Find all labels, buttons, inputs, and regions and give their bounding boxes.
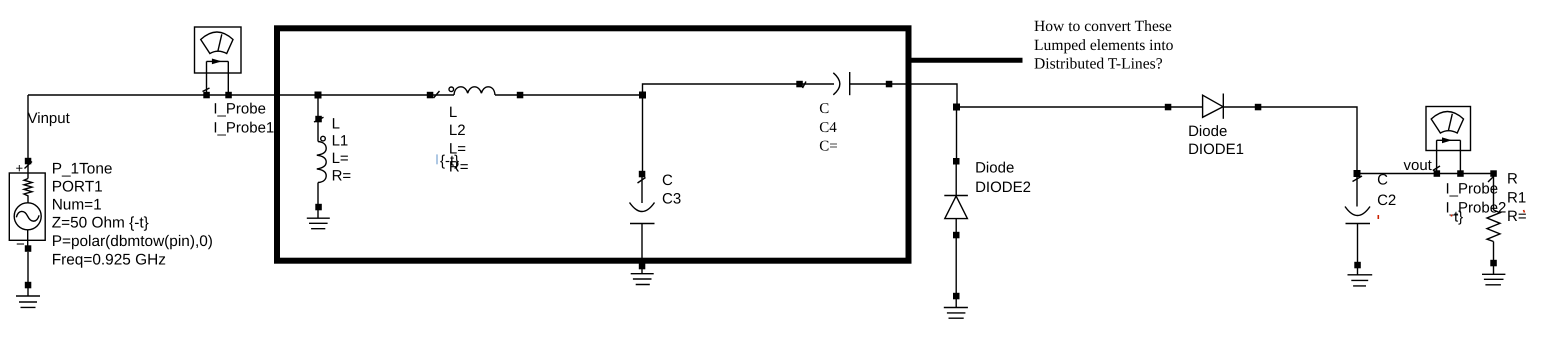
slash tick at L1 pin 1 xyxy=(314,117,324,122)
wire down to plates xyxy=(1356,177,1358,207)
label L2 xyxy=(449,104,469,175)
wire pin to cathode bar xyxy=(955,164,957,196)
ground pin square xyxy=(25,282,32,289)
svg-text:t}: t} xyxy=(1454,208,1463,225)
capacitor C2 (shunt) xyxy=(1345,176,1372,286)
straight plate of C4 xyxy=(849,72,851,95)
svg-text:Lumped elements into: Lumped elements into xyxy=(1034,37,1174,54)
node junction pin on main wire xyxy=(639,92,646,99)
text t} fragment xyxy=(1454,208,1463,225)
svg-text:Num=1: Num=1 xyxy=(52,197,102,214)
svg-text:I_Probe: I_Probe xyxy=(213,101,266,118)
wire pin to zigzag xyxy=(1493,177,1495,210)
svg-text:C2: C2 xyxy=(1377,192,1396,209)
svg-text:C: C xyxy=(819,101,829,117)
pin 1 of C4 xyxy=(796,81,803,88)
wire riser to C4 branch xyxy=(643,84,835,95)
pin 1 (top) of PORT1 xyxy=(25,158,32,165)
svg-text:P_1Tone: P_1Tone xyxy=(52,161,113,178)
node Vinput xyxy=(28,110,71,127)
svg-text:L: L xyxy=(449,104,457,121)
resistor R1 (shunt) xyxy=(1482,170,1505,284)
label DIODE1 xyxy=(1188,123,1244,158)
svg-text:L1: L1 xyxy=(332,132,349,149)
wire down to C3 xyxy=(642,95,644,171)
plus sign xyxy=(16,161,24,176)
pin 1 of L1 xyxy=(315,116,322,123)
slash tick on left leg xyxy=(1433,166,1440,171)
pin 2 of L1 xyxy=(315,204,322,211)
svg-text:DIODE2: DIODE2 xyxy=(975,179,1031,196)
wire into resistor xyxy=(27,161,29,179)
svg-text:L: L xyxy=(332,116,340,133)
label vout xyxy=(1404,157,1433,174)
pin 2 of DIODE2 xyxy=(953,232,960,239)
svg-text:PORT1: PORT1 xyxy=(52,178,103,195)
node junction pin xyxy=(953,104,960,111)
svg-text:R=: R= xyxy=(332,167,352,184)
label I_Probe1 xyxy=(213,101,274,137)
wire exit of box, corner down xyxy=(889,84,957,107)
pin 2 of DIODE1 xyxy=(1255,104,1262,111)
text {-t} overlay near L2 xyxy=(440,152,459,169)
svg-text:I_Probe: I_Probe xyxy=(1446,181,1499,198)
red tick near C2 xyxy=(1377,215,1379,219)
wire zigzag to pin 2 xyxy=(1493,242,1495,264)
wire vout net xyxy=(1357,173,1494,175)
wire circle to bottom pin xyxy=(27,230,29,249)
arrowhead xyxy=(1442,137,1452,143)
slash tick at R1 pin 1 xyxy=(1488,176,1495,183)
curved plate of C2 xyxy=(1345,207,1370,216)
svg-text:C3: C3 xyxy=(662,190,681,207)
node junction pin at main wire xyxy=(315,92,322,99)
diode DIODE1 (series) xyxy=(1165,94,1262,119)
slash tick at C4 pin 1 xyxy=(803,82,807,89)
cathode bar of DIODE1 xyxy=(1222,94,1224,119)
label I_Probe2 xyxy=(1446,181,1507,217)
svg-text:I_Probe1: I_Probe1 xyxy=(213,120,274,137)
polarity dot circle of L1 xyxy=(321,136,326,141)
big annotation box (thick rectangle) xyxy=(277,28,909,260)
annotation text (serif) xyxy=(1034,18,1174,73)
slash tick on left leg xyxy=(203,88,210,92)
pin 1 of I_Probe1 xyxy=(203,92,210,99)
svg-text:C=: C= xyxy=(819,139,837,155)
body box of PORT1 xyxy=(9,173,45,240)
svg-text:Distributed T-Lines?: Distributed T-Lines? xyxy=(1034,56,1163,73)
pin 1 of DIODE1 xyxy=(1165,104,1172,111)
pin 2 (bottom) of PORT1 xyxy=(25,245,32,252)
pin 2 of L2 xyxy=(517,92,524,99)
pin 1 of L2 xyxy=(427,92,434,99)
wire plate to ground pin xyxy=(641,224,643,264)
meter fan outer arc xyxy=(1431,112,1463,134)
svg-text:R1: R1 xyxy=(1507,189,1526,206)
inductor L2 (series) xyxy=(427,87,524,99)
svg-text:Vinput: Vinput xyxy=(28,110,71,127)
straight plate of C3 xyxy=(630,223,655,225)
cathode bar of DIODE2 xyxy=(944,195,968,197)
triangle of DIODE2 xyxy=(945,196,968,219)
zigzag of R1 xyxy=(1487,210,1500,242)
svg-text:{-t}: {-t} xyxy=(440,152,459,169)
arrow line xyxy=(207,60,229,62)
label C4 (serif) xyxy=(819,101,837,155)
svg-text:Diode: Diode xyxy=(1188,123,1227,140)
label C3 xyxy=(662,172,681,207)
svg-text:−: − xyxy=(16,236,25,253)
diode DIODE2 (shunt) xyxy=(944,104,968,319)
wire plate to pin 2 xyxy=(850,83,889,85)
wire down xyxy=(956,107,958,161)
svg-text:How to convert These: How to convert These xyxy=(1034,18,1172,35)
minus sign xyxy=(16,236,25,253)
ground symbol of C2 xyxy=(1348,268,1373,286)
inductor L1 (shunt) xyxy=(307,92,330,229)
curved plate of C4 xyxy=(833,73,840,95)
wire Vinput vertical drop to source xyxy=(27,95,29,161)
pin 2 of C3 xyxy=(639,263,646,270)
op current probe I_Probe2 xyxy=(1426,107,1471,177)
wire down to L1 xyxy=(317,95,319,116)
svg-text:R: R xyxy=(1507,171,1518,188)
slash tick at PORT1 pin 1 xyxy=(25,162,33,169)
triangle of DIODE1 xyxy=(1203,95,1223,117)
wire to ground xyxy=(955,238,957,296)
slash tick at C3 pin 1 xyxy=(638,178,646,184)
pin 2 of C2 xyxy=(1354,262,1361,269)
ground symbol of R1 xyxy=(1482,266,1505,285)
capacitor C4 (series) xyxy=(796,72,957,107)
meter fan outer arc xyxy=(201,32,233,54)
meter needle xyxy=(1448,114,1452,131)
svg-text:vout: vout xyxy=(1404,157,1433,174)
ground symbol of PORT1 xyxy=(16,288,40,307)
label C2 xyxy=(1377,172,1396,209)
op current probe I_Probe1 xyxy=(195,27,242,98)
annotation pointer thick line xyxy=(908,58,1023,63)
sine wave xyxy=(16,211,39,221)
svg-text:C: C xyxy=(662,172,673,189)
svg-text:L2: L2 xyxy=(449,122,466,139)
label L1 xyxy=(332,116,352,185)
body box of I_Probe2 xyxy=(1426,107,1471,151)
pin 1 of R1 xyxy=(1490,170,1497,177)
wire triangle to pin 2 xyxy=(955,219,957,235)
ground symbol of L1 xyxy=(307,210,330,229)
pin 1 of DIODE2 xyxy=(953,158,960,165)
wire pin to plates xyxy=(641,177,643,203)
pin 2 of I_Probe2 xyxy=(1457,170,1464,177)
wire plate to pin xyxy=(1357,224,1359,266)
slash tick at L2 pin 1 xyxy=(434,91,440,98)
wire pin to coil xyxy=(317,122,319,142)
polarity dot circle of L2 xyxy=(449,87,454,92)
red tick after R= xyxy=(1524,210,1525,213)
svg-text:L=: L= xyxy=(332,150,349,167)
pin 2 of R1 xyxy=(1490,260,1497,267)
caret cursor (pale blue) xyxy=(436,154,438,164)
sine source circle xyxy=(14,203,41,230)
coil of L1 (3 bumps right) xyxy=(317,142,326,183)
body box of I_Probe1 xyxy=(195,27,242,73)
meter needle xyxy=(218,34,222,51)
ground symbol of DIODE2 xyxy=(944,299,968,318)
probe legs xyxy=(207,61,229,95)
resistor zigzag inside PORT1 xyxy=(24,179,32,203)
svg-text:P=polar(dbmtow(pin),0): P=polar(dbmtow(pin),0) xyxy=(52,233,213,250)
arrowhead xyxy=(212,59,222,65)
svg-text:DIODE1: DIODE1 xyxy=(1188,141,1244,158)
svg-text:Diode: Diode xyxy=(975,159,1014,176)
source P_1Tone PORT1 xyxy=(9,158,45,308)
wire main horizontal net Vinput (y=95) xyxy=(28,94,643,96)
label DIODE2 xyxy=(975,159,1031,196)
wire net after box (y=107) xyxy=(957,107,1357,174)
red dot near t} xyxy=(1451,215,1453,217)
slash tick at C2 pin 1 xyxy=(1353,176,1363,182)
ground pin of DIODE2 xyxy=(953,293,960,300)
pin 1 of I_Probe2 xyxy=(1434,170,1441,177)
ground symbol of C3 xyxy=(631,269,654,285)
node vout junction pin xyxy=(1354,170,1361,177)
wire to ground xyxy=(27,252,29,285)
svg-text:Freq=0.925 GHz: Freq=0.925 GHz xyxy=(52,252,166,269)
straight plate of C2 xyxy=(1346,223,1371,225)
svg-text:Z=50 Ohm {-t}: Z=50 Ohm {-t} xyxy=(52,215,149,232)
pin 2 of C4 xyxy=(886,81,893,88)
pin 2 of I_Probe1 xyxy=(225,92,232,99)
label P_1Tone parameter block xyxy=(52,161,213,269)
capacitor C3 (shunt) xyxy=(630,92,655,285)
arrow line xyxy=(1437,139,1461,141)
probe legs xyxy=(1437,140,1461,173)
label R1 xyxy=(1507,171,1527,225)
curved plate of C3 xyxy=(630,203,655,212)
svg-text:C4: C4 xyxy=(819,120,837,136)
svg-text:C: C xyxy=(1377,172,1388,189)
wire coil to pin 2 xyxy=(317,183,319,208)
coil of L2 (3 bumps up) xyxy=(454,87,495,95)
pin 1 of C3 xyxy=(639,171,646,178)
